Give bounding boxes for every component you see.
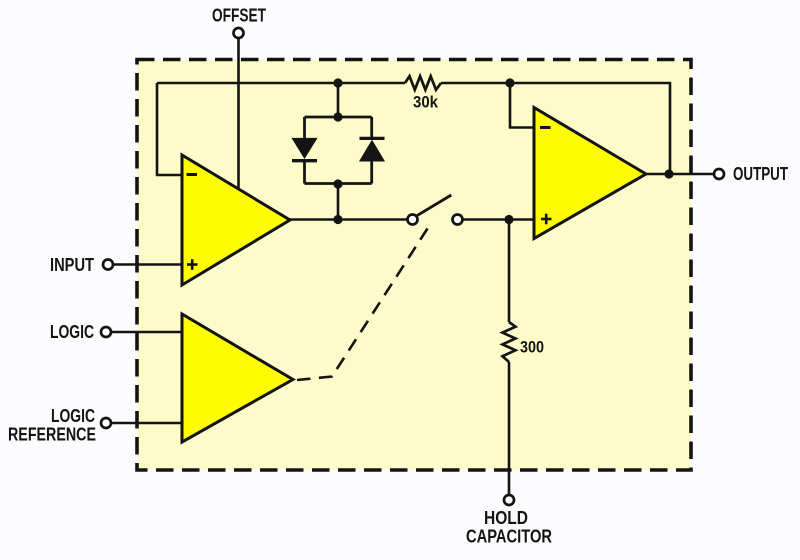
wire: switch to A3 non-inverting input [463,218,535,221]
comparator A2 (logic) [182,314,293,442]
resistor R1 30k [405,76,441,90]
A1 non-inverting pin mark (+) [187,259,198,270]
terminal: HOLD CAPACITOR pin [504,495,514,505]
diode D2 (right, cathode up) [360,138,385,161]
op-amp A3 (output amplifier) [534,108,646,239]
A3 non-inverting pin mark (+) [541,214,552,225]
switch S1 right contact [453,215,463,225]
junction dot: diode box bottom [333,179,342,188]
label: HOLD CAPACITOR (two lines) [466,508,552,547]
wire: LOGIC REFERENCE lead [111,422,183,425]
junction dot: top rail / diode branch [333,78,342,87]
junction dot: output node [664,169,673,178]
terminal: OFFSET pin [234,28,244,38]
junction dot: top rail / A3 inverting branch [505,78,514,87]
terminal: LOGIC REFERENCE pin [101,418,111,428]
switch S1 left contact [408,215,418,225]
wire: diode box bottom bar [305,182,372,185]
svg-text:300: 300 [520,339,544,357]
svg-text:LOGIC: LOGIC [51,406,95,426]
wire: diode box left lower segment [303,161,306,184]
wire: A1 output to switch [289,218,408,221]
wire: diode box left upper segment [303,117,306,140]
label: LOGIC REFERENCE (two lines) [8,406,96,445]
wire: A3 output to OUTPUT terminal [645,173,714,176]
terminal: OUTPUT pin [714,169,724,179]
svg-text:HOLD: HOLD [484,508,528,528]
wire: OFFSET pin drop into A1 [237,39,240,189]
op-amp A1 (input amplifier) [182,155,290,285]
A1 inverting pin mark (-) [187,173,198,176]
wire: INPUT lead [113,263,183,266]
wire: LOGIC lead [111,331,183,334]
wire: top rail from R1 to output node (corner down at right) [441,83,670,174]
junction dot: A1 output / diode branch [333,215,342,224]
wire: diode box right upper segment [370,117,373,138]
svg-text:INPUT: INPUT [50,255,94,275]
wire: A1 inverting input branch (left corner) [157,83,183,175]
junction dot: hold branch / A3 + input [504,215,513,224]
svg-text:LOGIC: LOGIC [50,322,94,342]
junction dot: diode box top [333,112,342,121]
wire: diode box right lower segment [370,161,373,184]
terminal: INPUT pin [103,260,113,270]
wire: top rail from A1 inverting branch to resistor R1 [157,82,405,85]
svg-text:OUTPUT: OUTPUT [733,164,788,184]
wire: diode clamp top branch [337,83,340,117]
dashed control link from A2 to switch [297,229,428,381]
wire: diode clamp bottom branch [337,184,340,220]
wire: hold capacitor branch upper [508,220,511,323]
svg-text:CAPACITOR: CAPACITOR [466,527,552,547]
switch S1 arm [416,195,452,216]
wire: hold capacitor branch lower [508,362,511,495]
svg-text:30k: 30k [413,94,439,112]
terminal: LOGIC pin [101,327,111,337]
wire: A3 inverting input branch from top rail [510,83,535,128]
IC package boundary (dashed box) [137,60,691,471]
svg-text:REFERENCE: REFERENCE [8,425,96,445]
diode D1 (left, cathode down) [292,138,317,160]
resistor R2 300 [503,322,516,362]
svg-text:OFFSET: OFFSET [212,6,266,26]
A3 inverting pin mark (-) [540,126,551,129]
wire: diode box top bar [305,116,372,119]
